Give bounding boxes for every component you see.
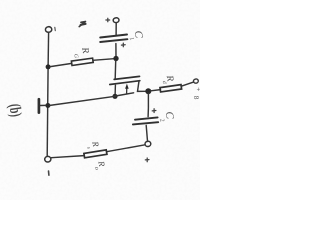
plus below C1 — [121, 43, 125, 47]
arrow: Q1 bulk arrow — [125, 84, 129, 89]
wire: C1 top lead — [115, 23, 117, 36]
label Rd — [161, 74, 175, 85]
plus above C2 — [152, 109, 156, 113]
terminal 1 (input top-left) — [45, 26, 52, 32]
resistor RL — [84, 150, 107, 158]
wire: drain bend — [138, 81, 146, 91]
node: gate node junction — [113, 56, 118, 61]
plus at C1 terminal — [106, 18, 110, 22]
wire: C2 bottom lead — [146, 125, 147, 141]
resistor RG — [71, 58, 93, 65]
ground bar (thick) — [38, 99, 41, 112]
label Rs above RL — [85, 140, 101, 150]
terminal output — [145, 141, 151, 147]
wire: bulk tie — [116, 93, 134, 96]
label C1 — [128, 30, 145, 41]
resistor Rd — [160, 85, 182, 92]
wire: source to left rail — [50, 96, 115, 105]
label 1' tick — [48, 171, 50, 175]
capacitor C2 plates — [135, 117, 158, 119]
wire: gate lead down — [114, 61, 117, 79]
wire: RG right lead — [93, 59, 114, 61]
wire: left rail — [47, 32, 48, 156]
capacitor C1 plates — [100, 35, 127, 38]
terminal 1' (bottom-left) — [44, 156, 51, 162]
wire: drain to Rd — [151, 90, 161, 91]
wire: drain junction down to C2 — [147, 94, 149, 117]
node: source-side junction — [45, 103, 50, 108]
label RG — [72, 46, 90, 59]
label i (top-left tick) — [54, 27, 57, 30]
terminal +VDD — [193, 79, 198, 84]
node: source junction dot — [112, 94, 117, 99]
wire: RG left lead — [50, 63, 72, 66]
wire: RL to terminal 1' — [51, 156, 84, 158]
plus below output — [145, 158, 149, 162]
transistor Q1 gate bar — [114, 76, 139, 79]
wire: Q1 source stub — [114, 85, 116, 95]
capacitor C1 top terminal — [113, 17, 119, 23]
wire: Q1 bulk stub — [126, 88, 128, 94]
transistor Q1 channel bar — [110, 81, 140, 85]
wire: Rd to VDD — [181, 82, 193, 86]
wire: C1 bottom lead — [115, 44, 117, 57]
node: drain junction — [145, 88, 151, 94]
label vi squiggle — [79, 22, 85, 27]
node: gate-side junction — [46, 64, 51, 69]
wire: output to RL — [107, 145, 145, 152]
wire: bar stub — [40, 104, 46, 106]
label RL below RL — [93, 159, 107, 170]
label (b) — [5, 103, 26, 118]
label +VDD — [192, 87, 203, 101]
label C2 — [158, 111, 176, 123]
